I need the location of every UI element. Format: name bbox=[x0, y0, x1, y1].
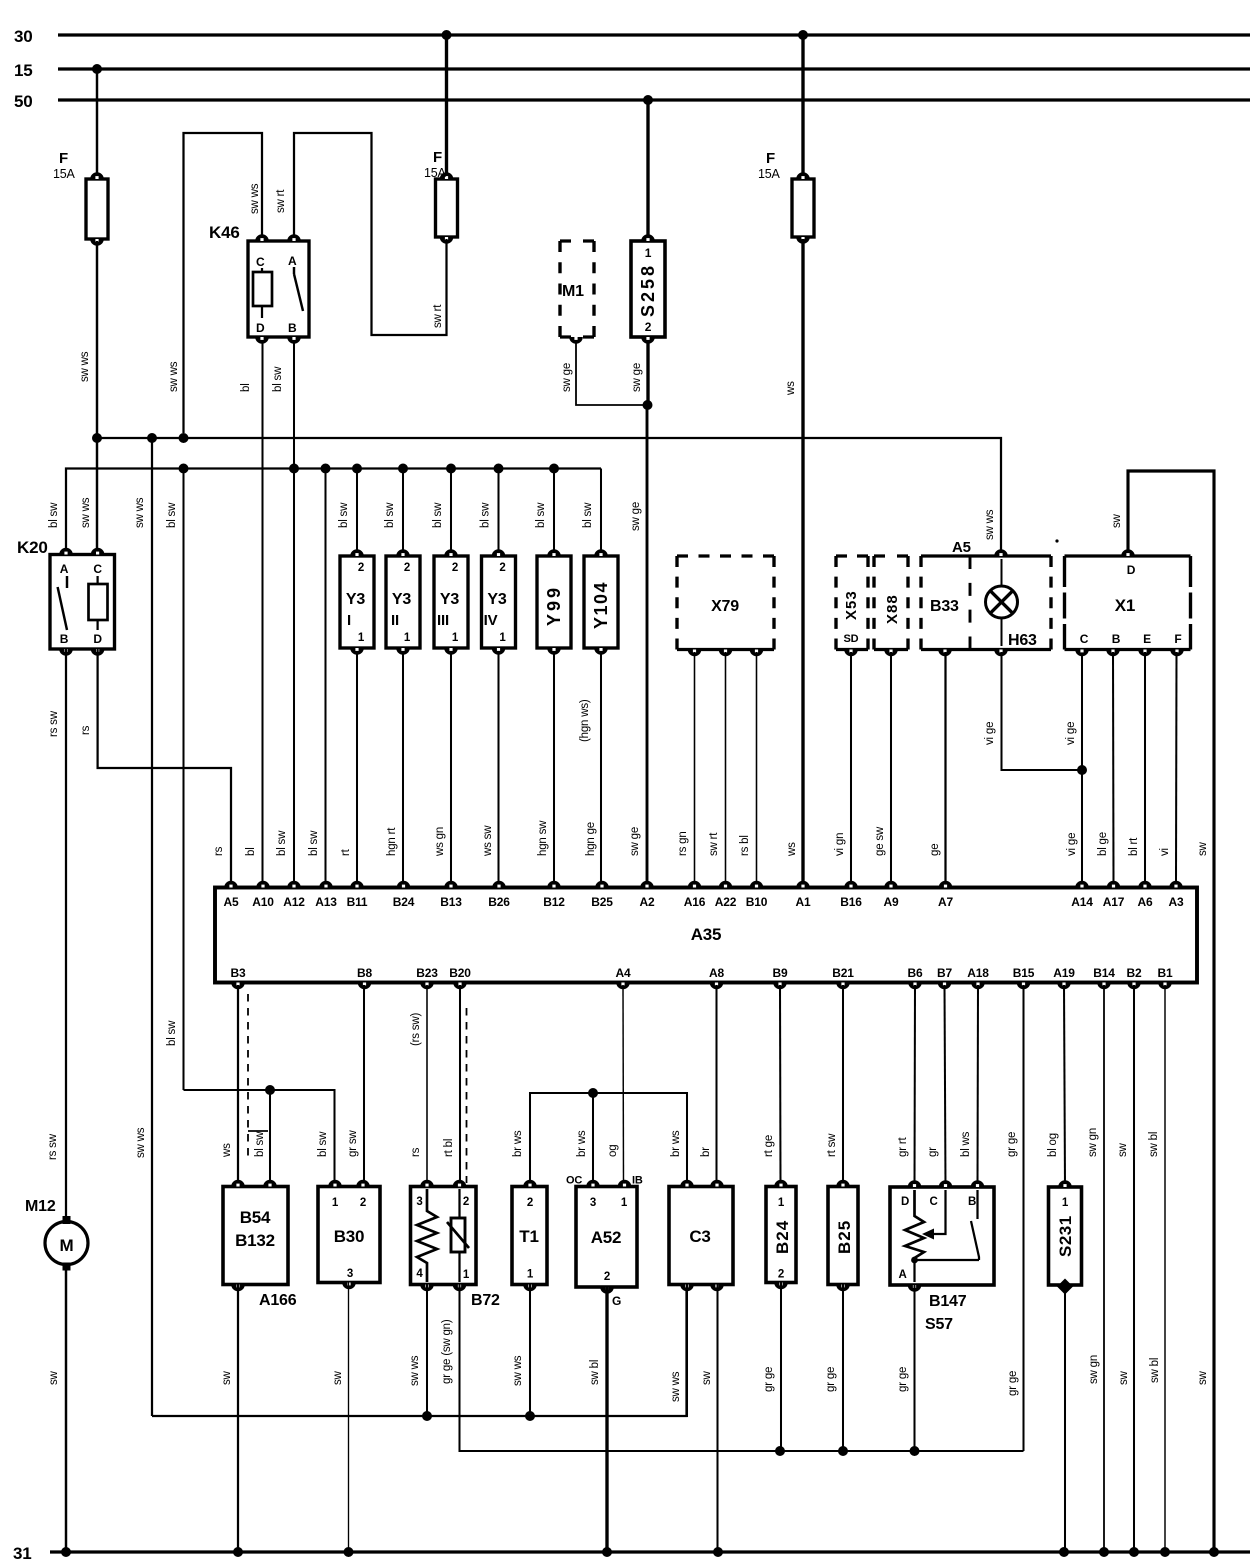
svg-text:sw bl: sw bl bbox=[589, 1360, 601, 1385]
svg-text:rs sw: rs sw bbox=[47, 1133, 59, 1160]
node sw-ws-2 bbox=[147, 433, 157, 443]
svg-text:A14: A14 bbox=[1071, 895, 1093, 909]
node blsw-a bbox=[179, 464, 189, 474]
svg-text:sw ge: sw ge bbox=[561, 363, 573, 392]
wire bl K46-D to A10 bbox=[240, 340, 263, 881]
svg-text:bl sw: bl sw bbox=[166, 502, 178, 528]
svg-text:B1: B1 bbox=[1158, 966, 1173, 980]
svg-text:31: 31 bbox=[13, 1544, 32, 1563]
wire rs B23 to B72 bbox=[410, 985, 427, 1187]
svg-text:2: 2 bbox=[778, 1269, 784, 1281]
svg-text:ws: ws bbox=[786, 842, 798, 857]
svg-text:B: B bbox=[60, 632, 69, 646]
svg-text:B24: B24 bbox=[393, 895, 415, 909]
svg-text:A5: A5 bbox=[224, 895, 239, 909]
bus 15 bbox=[14, 61, 1250, 80]
svg-text:bl ge: bl ge bbox=[1097, 832, 1109, 856]
wire gr rt B6 to B147-D bbox=[897, 985, 915, 1187]
node gr ge 3 bbox=[910, 1446, 920, 1456]
node bus31 b14 bbox=[1099, 1547, 1109, 1557]
svg-text:bl sw: bl sw bbox=[338, 502, 350, 528]
node sw ws b72 bbox=[422, 1411, 432, 1421]
assembly A5 box bbox=[921, 539, 1051, 656]
svg-text:gr sw: gr sw bbox=[347, 1130, 359, 1157]
node bus31 sw-right bbox=[1209, 1547, 1219, 1557]
svg-text:B16: B16 bbox=[840, 895, 862, 909]
wire S231 to bus31 bbox=[1064, 1292, 1066, 1552]
svg-text:sw: sw bbox=[1118, 1370, 1130, 1385]
svg-text:X1: X1 bbox=[1115, 596, 1135, 615]
node bus15-F1 bbox=[92, 64, 102, 74]
svg-text:C: C bbox=[256, 255, 265, 269]
svg-text:OC: OC bbox=[566, 1175, 582, 1187]
node bus31 b2 bbox=[1129, 1547, 1139, 1557]
svg-text:rs bl: rs bl bbox=[739, 835, 751, 856]
wire bl sw to Y99 bbox=[535, 469, 554, 554]
wire bl ws A18 to B147-B bbox=[960, 985, 978, 1187]
node br ws bbox=[588, 1088, 598, 1098]
component M1 bbox=[560, 241, 594, 344]
valve Y3 IV bbox=[482, 549, 516, 655]
svg-text:B3: B3 bbox=[231, 966, 246, 980]
wire bl sw to Y3 I bbox=[338, 469, 357, 554]
svg-text:bl sw: bl sw bbox=[276, 830, 288, 856]
fuse F2 bbox=[424, 149, 458, 244]
svg-text:A: A bbox=[288, 254, 297, 268]
node vi ge junction bbox=[1077, 765, 1087, 775]
wire bl sw drop x184 bbox=[166, 469, 184, 1091]
wire ws F3 to A1 bbox=[785, 239, 803, 881]
svg-text:A17: A17 bbox=[1103, 895, 1125, 909]
svg-text:gr: gr bbox=[927, 1147, 939, 1157]
svg-text:sw ws: sw ws bbox=[80, 497, 92, 528]
svg-text:sw gn: sw gn bbox=[1087, 1128, 1099, 1157]
svg-text:B15: B15 bbox=[1013, 966, 1035, 980]
svg-text:sw ge: sw ge bbox=[629, 827, 641, 856]
svg-text:bl sw: bl sw bbox=[480, 502, 492, 528]
svg-text:A4: A4 bbox=[616, 966, 631, 980]
node Y3 I bus bbox=[352, 464, 362, 474]
wire vi gn X53 to B16 bbox=[834, 652, 851, 881]
wire bl sw to A13 bbox=[308, 469, 326, 882]
wire sw rt F2 to K46-A bbox=[275, 133, 447, 335]
wire sw gn B14 to bus31 bbox=[1087, 985, 1104, 1552]
thermo T1 bbox=[512, 1180, 547, 1292]
wire br ws net bbox=[512, 1093, 687, 1187]
relay K46 bbox=[209, 223, 309, 344]
svg-text:A52: A52 bbox=[591, 1228, 622, 1247]
wire hgn sw Y99 to B12 bbox=[537, 651, 554, 881]
svg-text:S258: S258 bbox=[638, 263, 658, 317]
wire rt Y3I to B11 bbox=[340, 651, 357, 881]
svg-text:B: B bbox=[288, 321, 297, 335]
svg-text:rt ge: rt ge bbox=[763, 1135, 775, 1157]
node bus31 b30 bbox=[344, 1547, 354, 1557]
svg-text:X88: X88 bbox=[884, 594, 901, 624]
connector X53 bbox=[836, 556, 868, 656]
svg-text:A1: A1 bbox=[796, 895, 811, 909]
svg-text:bl sw: bl sw bbox=[432, 502, 444, 528]
wire S258 feed bbox=[646, 100, 649, 239]
svg-text:B13: B13 bbox=[440, 895, 462, 909]
dashed wire variant B3 bbox=[247, 994, 249, 1160]
wire ws sw Y3IV to B26 bbox=[482, 651, 499, 881]
svg-text:B54: B54 bbox=[240, 1208, 271, 1227]
svg-text:M1: M1 bbox=[562, 283, 584, 300]
svg-text:A2: A2 bbox=[640, 895, 655, 909]
wire rs bl X79 to B10 bbox=[739, 652, 757, 881]
svg-text:(rs sw): (rs sw) bbox=[410, 1013, 422, 1046]
node bus30-F3 bbox=[798, 30, 808, 40]
node bus31 c3 bbox=[713, 1547, 723, 1557]
svg-text:2: 2 bbox=[499, 562, 505, 574]
potentiometer B147 S57 bbox=[890, 1180, 994, 1333]
svg-text:bl sw: bl sw bbox=[272, 366, 284, 392]
svg-text:gr rt: gr rt bbox=[897, 1137, 909, 1157]
wire vi X1-F to A3 bbox=[1159, 652, 1177, 881]
svg-text:B23: B23 bbox=[416, 966, 438, 980]
svg-text:br ws: br ws bbox=[670, 1130, 682, 1157]
node sw ws t1 bbox=[525, 1411, 535, 1421]
wire bl og A19 to S231 bbox=[1047, 985, 1065, 1187]
svg-text:M: M bbox=[60, 1236, 74, 1255]
svg-text:A7: A7 bbox=[938, 895, 953, 909]
svg-text:bl sw: bl sw bbox=[254, 1131, 266, 1157]
svg-text:rs: rs bbox=[80, 725, 92, 735]
svg-text:rt bl: rt bl bbox=[443, 1139, 455, 1157]
wire bl sw K46-B to A12 bbox=[272, 340, 294, 881]
svg-text:B72: B72 bbox=[471, 1292, 500, 1309]
svg-text:4: 4 bbox=[416, 1268, 423, 1280]
sensor C3 bbox=[669, 1180, 733, 1292]
svg-text:K46: K46 bbox=[209, 223, 240, 242]
svg-text:2: 2 bbox=[452, 562, 458, 574]
node sw-ws-1 bbox=[92, 433, 102, 443]
ECU A35 bbox=[215, 881, 1197, 990]
svg-text:sw ws: sw ws bbox=[409, 1355, 421, 1386]
svg-text:B25: B25 bbox=[591, 895, 613, 909]
node gr ge 2 bbox=[838, 1446, 848, 1456]
svg-text:3: 3 bbox=[590, 1197, 596, 1209]
svg-text:M12: M12 bbox=[25, 1198, 56, 1215]
sensor B30 bbox=[318, 1180, 380, 1290]
svg-text:B24: B24 bbox=[773, 1220, 792, 1254]
svg-text:A10: A10 bbox=[252, 895, 274, 909]
svg-text:B7: B7 bbox=[937, 966, 952, 980]
wire rs K20-D to A5 bbox=[80, 649, 231, 881]
svg-text:sw: sw bbox=[332, 1370, 344, 1385]
wire gr ge B147-A bbox=[897, 1285, 915, 1451]
wire sw M12 to bus31 bbox=[48, 1270, 66, 1552]
wire sw ws F1 to K20-C bbox=[79, 241, 97, 555]
svg-text:IV: IV bbox=[484, 612, 498, 629]
node bus31 b1 bbox=[1160, 1547, 1170, 1557]
svg-text:B30: B30 bbox=[334, 1227, 365, 1246]
svg-text:gr ge: gr ge bbox=[1007, 1371, 1019, 1396]
node bus31 b54 bbox=[233, 1547, 243, 1557]
wire ge B33 to A7 bbox=[929, 652, 946, 881]
svg-text:A5: A5 bbox=[952, 539, 971, 556]
svg-text:bl sw: bl sw bbox=[166, 1020, 178, 1046]
sensor B54 B132 bbox=[223, 1180, 297, 1309]
svg-text:hgn rt: hgn rt bbox=[386, 827, 398, 856]
svg-text:vi ge: vi ge bbox=[1065, 722, 1077, 745]
switch S231 bbox=[1049, 1180, 1082, 1294]
svg-text:bl sw: bl sw bbox=[535, 502, 547, 528]
node bus30-F2 bbox=[442, 30, 452, 40]
sensor B24 bbox=[766, 1180, 796, 1290]
wire gr ge B24-2 bbox=[763, 1283, 781, 1452]
svg-text:sw bl: sw bl bbox=[1149, 1358, 1161, 1383]
svg-text:sw ws: sw ws bbox=[512, 1355, 524, 1386]
connector X1 bbox=[1065, 549, 1191, 656]
wire sw ws C3 bbox=[670, 1285, 687, 1418]
svg-text:Y3: Y3 bbox=[487, 591, 506, 608]
svg-text:2: 2 bbox=[358, 562, 364, 574]
svg-text:G: G bbox=[612, 1294, 621, 1308]
wire sw ge M1 bbox=[561, 340, 644, 405]
svg-text:ws sw: ws sw bbox=[482, 825, 494, 857]
wire sw ws K46-C riser bbox=[168, 133, 262, 433]
svg-text:D: D bbox=[256, 321, 265, 335]
wire bl ge X1-B to A17 bbox=[1097, 652, 1114, 881]
wire sw ws long drop bbox=[134, 438, 152, 1416]
svg-text:gr ge: gr ge bbox=[1006, 1132, 1018, 1157]
svg-text:gr ge: gr ge bbox=[825, 1367, 837, 1392]
svg-text:sw rt: sw rt bbox=[708, 832, 720, 856]
wire sw bl A52 to bus31 bbox=[589, 1287, 607, 1552]
svg-text:gr ge: gr ge bbox=[763, 1367, 775, 1392]
stray mark bbox=[1055, 539, 1058, 542]
svg-text:B11: B11 bbox=[347, 895, 368, 909]
wire sw ge to A2 bbox=[629, 405, 647, 881]
svg-text:rs: rs bbox=[410, 1147, 422, 1157]
svg-text:3: 3 bbox=[416, 1196, 422, 1208]
svg-text:hgn sw: hgn sw bbox=[537, 820, 549, 856]
bus 31 bbox=[13, 1544, 1250, 1563]
svg-text:A16: A16 bbox=[684, 895, 706, 909]
svg-text:T1: T1 bbox=[519, 1227, 538, 1246]
svg-text:II: II bbox=[391, 612, 399, 629]
svg-text:hgn ge: hgn ge bbox=[585, 822, 597, 856]
svg-text:sw rt: sw rt bbox=[432, 304, 444, 328]
svg-text:gr ge: gr ge bbox=[897, 1367, 909, 1392]
svg-text:bl rt: bl rt bbox=[1128, 837, 1140, 856]
lamp H63 symbol bbox=[986, 559, 1018, 646]
svg-text:X79: X79 bbox=[711, 598, 739, 615]
node bus50-S258 bbox=[643, 95, 653, 105]
svg-text:bl sw: bl sw bbox=[48, 502, 60, 528]
svg-text:1: 1 bbox=[404, 632, 411, 644]
svg-text:B21: B21 bbox=[832, 966, 854, 980]
svg-text:15A: 15A bbox=[758, 167, 781, 181]
svg-text:sw ge: sw ge bbox=[630, 502, 642, 531]
svg-text:sw ws: sw ws bbox=[79, 351, 91, 382]
svg-text:D: D bbox=[93, 632, 102, 646]
svg-text:1: 1 bbox=[358, 632, 365, 644]
svg-text:sw ws: sw ws bbox=[134, 497, 146, 528]
svg-text:A22: A22 bbox=[715, 895, 737, 909]
svg-text:A6: A6 bbox=[1138, 895, 1153, 909]
svg-text:1: 1 bbox=[499, 632, 506, 644]
wire vi ge X1-C to A14 bbox=[1065, 652, 1082, 881]
svg-text:br ws: br ws bbox=[512, 1130, 524, 1157]
node Y3 III bus bbox=[446, 464, 456, 474]
svg-text:1: 1 bbox=[621, 1197, 628, 1209]
wire F1 feed bbox=[96, 69, 98, 177]
svg-text:1: 1 bbox=[778, 1197, 785, 1209]
wire hgn rt Y3II to B24 bbox=[386, 651, 403, 881]
svg-text:B9: B9 bbox=[773, 966, 788, 980]
svg-text:sw: sw bbox=[1197, 1370, 1209, 1385]
svg-text:B6: B6 bbox=[908, 966, 923, 980]
wire sw C3 to bus31 bbox=[701, 1285, 718, 1553]
svg-text:Y104: Y104 bbox=[591, 581, 611, 629]
svg-text:vi ge: vi ge bbox=[984, 722, 996, 745]
svg-text:A19: A19 bbox=[1053, 966, 1075, 980]
wire gr ge B72-1 bbox=[441, 1285, 1024, 1452]
svg-text:B26: B26 bbox=[488, 895, 510, 909]
svg-text:A13: A13 bbox=[315, 895, 337, 909]
svg-text:2: 2 bbox=[645, 320, 652, 334]
svg-text:F: F bbox=[766, 150, 775, 167]
svg-text:C3: C3 bbox=[689, 1227, 710, 1246]
svg-text:50: 50 bbox=[14, 92, 33, 111]
wire rs sw K20-B to M12 bbox=[47, 649, 66, 1216]
svg-text:vi gn: vi gn bbox=[834, 833, 846, 856]
svg-text:X53: X53 bbox=[843, 590, 860, 620]
svg-text:F: F bbox=[433, 149, 442, 166]
wire ge sw X88 to A9 bbox=[874, 652, 891, 881]
svg-text:br: br bbox=[700, 1147, 712, 1157]
svg-text:2: 2 bbox=[360, 1197, 366, 1209]
svg-text:I: I bbox=[347, 612, 351, 629]
svg-text:bl sw: bl sw bbox=[582, 502, 594, 528]
svg-text:B10: B10 bbox=[746, 895, 768, 909]
wire rt sw B21 to B25 bbox=[826, 985, 843, 1187]
svg-text:S57: S57 bbox=[925, 1316, 953, 1333]
svg-text:K20: K20 bbox=[17, 538, 48, 557]
svg-text:bl sw: bl sw bbox=[384, 502, 396, 528]
svg-text:Y3: Y3 bbox=[440, 591, 459, 608]
svg-text:(hgn ws): (hgn ws) bbox=[579, 699, 591, 742]
svg-text:III: III bbox=[437, 612, 449, 629]
svg-text:B132: B132 bbox=[235, 1231, 275, 1250]
svg-text:2: 2 bbox=[527, 1197, 533, 1209]
svg-text:sw ws: sw ws bbox=[984, 509, 996, 540]
svg-text:bl: bl bbox=[240, 383, 252, 392]
svg-text:B147: B147 bbox=[929, 1293, 967, 1310]
svg-text:A: A bbox=[898, 1269, 906, 1281]
fuse F3 bbox=[758, 150, 814, 244]
svg-text:D: D bbox=[1127, 563, 1136, 577]
svg-text:2: 2 bbox=[604, 1271, 610, 1283]
wire bl sw bus bbox=[48, 469, 601, 555]
wire rt bl B20 to B72 bbox=[443, 985, 460, 1187]
svg-text:sw gn: sw gn bbox=[1088, 1355, 1100, 1384]
svg-text:vi: vi bbox=[1159, 848, 1171, 856]
svg-text:A: A bbox=[60, 562, 69, 576]
node blsw-b bbox=[289, 464, 299, 474]
wire sw B54 to bus31 bbox=[221, 1285, 238, 1553]
svg-text:B8: B8 bbox=[357, 966, 372, 980]
label bl sw crossed bbox=[248, 1131, 268, 1157]
svg-text:IB: IB bbox=[632, 1175, 643, 1187]
node gr ge 1 bbox=[775, 1446, 785, 1456]
svg-text:rs sw: rs sw bbox=[48, 710, 60, 737]
svg-text:rt: rt bbox=[340, 848, 352, 856]
svg-text:br ws: br ws bbox=[576, 1130, 588, 1157]
node Y99 bus bbox=[549, 464, 559, 474]
wire ws gn Y3III to B13 bbox=[434, 651, 451, 881]
valve Y3 II bbox=[386, 549, 420, 655]
svg-text:B: B bbox=[968, 1196, 976, 1208]
node bus31 a52 bbox=[602, 1547, 612, 1557]
svg-text:Y99: Y99 bbox=[544, 585, 564, 626]
wire gr B7 to B147-C bbox=[927, 985, 946, 1187]
node bl sw net bbox=[265, 1085, 275, 1095]
svg-text:og: og bbox=[607, 1145, 619, 1157]
valve Y3 I bbox=[340, 549, 374, 655]
svg-text:A18: A18 bbox=[967, 966, 989, 980]
sensor B25 bbox=[828, 1180, 858, 1292]
svg-text:A9: A9 bbox=[884, 895, 899, 909]
wire bl sw to B54 pin2 bbox=[269, 1090, 271, 1187]
wire F2 feed bbox=[445, 35, 448, 177]
svg-text:Y3: Y3 bbox=[392, 591, 411, 608]
node Y3 II bus bbox=[398, 464, 408, 474]
svg-text:sw ge: sw ge bbox=[631, 363, 643, 392]
svg-text:1: 1 bbox=[452, 632, 459, 644]
wire rs gn X79 to A16 bbox=[677, 652, 695, 881]
wire sw B30 to bus31 bbox=[332, 1283, 349, 1553]
svg-text:sw ws: sw ws bbox=[168, 361, 180, 392]
svg-text:ge: ge bbox=[929, 844, 941, 856]
wire sw ws bottom net bbox=[152, 1288, 687, 1416]
svg-text:sw: sw bbox=[1197, 841, 1209, 856]
connector X79 bbox=[677, 556, 774, 656]
svg-text:sw: sw bbox=[221, 1370, 233, 1385]
svg-text:F: F bbox=[59, 150, 68, 167]
svg-text:gr ge (sw gn): gr ge (sw gn) bbox=[441, 1319, 453, 1384]
svg-text:sw: sw bbox=[48, 1370, 60, 1385]
node bus31 m12 bbox=[61, 1547, 71, 1557]
svg-text:15A: 15A bbox=[53, 167, 76, 181]
wire vi ge H63 bbox=[984, 652, 1082, 770]
resistor B72 bbox=[411, 1180, 501, 1309]
wire sw X1-D riser bbox=[1111, 471, 1214, 1552]
svg-text:C: C bbox=[1080, 632, 1089, 646]
valve Y3 III bbox=[434, 549, 468, 655]
svg-text:B33: B33 bbox=[930, 598, 959, 615]
svg-text:sw ws: sw ws bbox=[249, 183, 261, 214]
svg-text:A166: A166 bbox=[259, 1292, 297, 1309]
svg-text:rs gn: rs gn bbox=[677, 831, 689, 856]
svg-text:E: E bbox=[1143, 632, 1151, 646]
svg-text:sw ws: sw ws bbox=[670, 1371, 682, 1402]
svg-text:ws: ws bbox=[221, 1143, 233, 1158]
wire bl sw to Y104 bbox=[582, 469, 601, 554]
svg-text:sw rt: sw rt bbox=[275, 189, 287, 213]
valve Y104 bbox=[584, 549, 618, 655]
wire sw bl B1 to bus31 bbox=[1148, 985, 1165, 1552]
svg-text:2: 2 bbox=[463, 1196, 469, 1208]
wire bl sw to Y3 IV bbox=[480, 469, 499, 554]
svg-text:bl og: bl og bbox=[1047, 1133, 1059, 1157]
wire rt ge B9 to B24 bbox=[763, 985, 781, 1187]
svg-text:C: C bbox=[93, 562, 102, 576]
wire ws B3 to B54 bbox=[221, 985, 238, 1187]
